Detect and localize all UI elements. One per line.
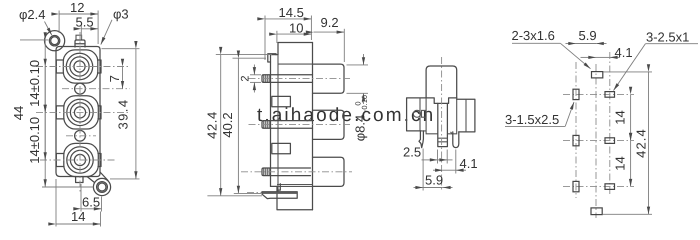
dim 4.1 line right	[456, 169, 466, 171]
grid row1	[563, 93, 634, 95]
centerline J1	[36, 66, 130, 68]
mounting ear bottom-right	[93, 178, 110, 195]
svg-text:14: 14	[613, 156, 628, 170]
top tab block	[278, 43, 313, 55]
wing hole oval	[413, 110, 420, 117]
svg-text:14.5: 14.5	[279, 5, 304, 20]
dim 5.9 ext	[422, 149, 424, 191]
svg-text:6.5: 6.5	[82, 195, 100, 210]
jack J1 right lug	[98, 60, 102, 73]
label 3-1.5x2.5 leader	[565, 102, 574, 126]
jack J2 ring2	[70, 103, 89, 122]
svg-text:2: 2	[239, 76, 251, 82]
left leg	[419, 131, 423, 148]
centerline J2	[36, 111, 130, 113]
svg-text:7: 7	[107, 75, 122, 82]
snap foot	[262, 192, 297, 199]
svg-text:φ2.4: φ2.4	[19, 7, 46, 22]
svg-text:φ3: φ3	[113, 7, 129, 22]
svg-text:2.5: 2.5	[403, 145, 421, 160]
pin P1	[262, 75, 313, 83]
jack J3 ring	[67, 147, 93, 173]
svg-text:t.aihaode.com.cn: t.aihaode.com.cn	[257, 105, 435, 126]
left wing	[407, 98, 427, 131]
svg-text:39.4: 39.4	[116, 99, 131, 130]
centerline A	[62, 88, 130, 90]
dim 5.9 line left	[414, 187, 424, 189]
svg-text:3-2.5x1: 3-2.5x1	[646, 30, 689, 45]
dim 39.4 ext top	[102, 48, 140, 50]
foot centerline	[247, 191, 264, 193]
pad R1	[605, 92, 615, 98]
dim 5.5 line	[81, 28, 98, 30]
wing hole rect	[422, 110, 427, 117]
svg-text:-0.10: -0.10	[360, 95, 369, 112]
dim 44 line	[44, 40, 46, 187]
dim 10 ext left	[276, 31, 278, 43]
pin P1 ribs	[264, 75, 270, 83]
svg-text:44: 44	[11, 106, 26, 120]
body front face	[312, 43, 314, 210]
jack J3 octagon	[64, 143, 99, 176]
svg-text:42.4: 42.4	[634, 128, 649, 158]
left wing inner line	[419, 98, 421, 131]
dim 14.5 ext left	[264, 16, 266, 61]
svg-text:14: 14	[71, 209, 85, 224]
dim 2 ext top	[250, 74, 261, 76]
dim 4.1 line	[581, 56, 597, 58]
dim 39.4 line	[135, 49, 137, 179]
dim 6.5 line	[81, 208, 102, 210]
dim 9.2 line	[314, 31, 345, 33]
jack J2 hole	[74, 107, 85, 118]
pin P3	[262, 168, 311, 176]
bottom block	[271, 186, 313, 209]
barrel bore line row3	[277, 185, 313, 187]
pad L3	[573, 181, 579, 191]
svg-text:φ8.4: φ8.4	[353, 115, 368, 142]
dim 5.9 line	[566, 43, 577, 45]
dim 40.2 line	[237, 58, 239, 193]
right wing inner line	[465, 99, 467, 132]
dim 42.4 ext top	[603, 71, 652, 73]
svg-text:4.1: 4.1	[615, 45, 633, 60]
dim dia8.4 ext bottom	[347, 92, 369, 94]
dim 14.5 line	[265, 18, 311, 20]
dim 12 line	[59, 13, 98, 15]
dim 40.2 ext top	[233, 57, 267, 59]
dim 2 arrow top	[253, 65, 255, 75]
dim 42.4 ext bottom	[207, 195, 262, 197]
pad bottom 3x1.6	[591, 208, 602, 215]
jack J1 octagon	[63, 50, 98, 83]
centerline vertical	[441, 57, 443, 192]
svg-text:3-1.5x2.5: 3-1.5x2.5	[505, 112, 559, 127]
jack J1 hole	[74, 61, 85, 72]
svg-text:40.2: 40.2	[220, 112, 235, 137]
dim 5.9 mid	[576, 43, 596, 45]
ear top-left hole ring	[49, 36, 59, 46]
small circle B	[75, 130, 86, 141]
top tab	[75, 40, 85, 47]
dim dia8.4 arrow top	[363, 54, 365, 65]
dim 5.9 line mid	[423, 187, 443, 189]
jack J3 right lug	[98, 154, 101, 167]
jack J1 ring2	[70, 57, 89, 76]
pin P3 ribs	[264, 168, 270, 176]
dim 14 bottom line	[56, 223, 101, 225]
mounting ear top-left	[45, 31, 65, 51]
dim 42.4 ext bottom	[603, 213, 652, 215]
bottom tab	[76, 177, 83, 183]
ear top-left hole	[51, 37, 59, 45]
pad L2	[573, 135, 579, 145]
center post lines	[438, 138, 448, 142]
dim 12 ext right	[97, 11, 99, 45]
dim 12 ext left	[58, 11, 60, 34]
centerline row1	[249, 78, 353, 80]
side boss 1	[272, 96, 291, 106]
jack J1 ring	[66, 53, 92, 79]
grid row3	[563, 186, 634, 188]
top tab	[426, 66, 457, 98]
ear bottom-right neck	[87, 172, 108, 183]
pad L1	[573, 89, 579, 99]
svg-text:9.2: 9.2	[321, 15, 339, 30]
svg-text:5.9: 5.9	[425, 173, 443, 188]
side boss 2	[272, 143, 291, 153]
right leg foot	[451, 132, 453, 135]
label 3-2.5x1 leader	[614, 44, 646, 91]
svg-text:12: 12	[70, 0, 84, 15]
dim 44 ext top	[20, 39, 49, 41]
dim 39.4 ext bottom	[110, 178, 140, 180]
centerline row3	[241, 171, 352, 173]
label 2-3x1.6 underline	[512, 42, 560, 44]
top-left step	[268, 54, 276, 62]
dim 2.5 line right	[438, 159, 447, 161]
body outline	[56, 47, 100, 177]
jack J2 right lug	[98, 106, 101, 119]
dim 7 line	[122, 67, 124, 89]
dim 40.2 ext bottom	[234, 192, 261, 194]
dim 14b arrows	[44, 112, 46, 160]
ear bottom-right hole	[97, 182, 108, 193]
pin P2 ribs	[264, 121, 270, 129]
ear bottom-right hole inner	[98, 183, 106, 191]
svg-text:14: 14	[613, 110, 628, 124]
dim 44 ext bottom	[42, 186, 94, 188]
label 3-1.5x2.5 underline	[505, 125, 565, 127]
dim 2.5 ext a	[437, 150, 439, 164]
dim 4.1 line left	[433, 169, 443, 171]
barrel B1	[313, 64, 345, 93]
centerline B	[66, 135, 96, 137]
jack J3 ring2	[70, 150, 89, 169]
dim 14a arrows	[44, 67, 46, 113]
dim 5.5 ext	[80, 26, 82, 40]
dim 14b line	[630, 141, 632, 187]
dim 10 line	[277, 33, 312, 35]
dim dia8.4 ext top	[347, 64, 369, 66]
pad top 3x1.6	[592, 72, 603, 78]
right wing	[457, 99, 475, 132]
small circle A	[75, 83, 86, 94]
center post	[438, 103, 448, 146]
body lower edge	[277, 184, 313, 186]
jack J2 octagon	[64, 96, 99, 129]
dim 14 bottom ext right	[100, 212, 102, 227]
dim 14 bottom ext left	[55, 179, 57, 227]
svg-text:4.1: 4.1	[460, 156, 478, 171]
svg-text:14±0.10: 14±0.10	[27, 60, 42, 107]
svg-text:14±0.10: 14±0.10	[27, 117, 42, 164]
label 3-2.5x1 underline	[645, 43, 698, 45]
middle body	[426, 98, 457, 104]
centerline vertical	[79, 32, 81, 194]
centerline J3	[40, 159, 116, 161]
svg-text:10: 10	[289, 21, 303, 36]
jack J2 left lug	[56, 106, 64, 119]
barrel B2	[313, 110, 345, 139]
dim 4.1 mid	[596, 56, 610, 58]
dim 2 arrow bottom	[253, 82, 255, 92]
dim 9.2 ext right	[343, 29, 345, 62]
dim 5.9 line b	[596, 43, 606, 45]
snap foot hatch	[263, 192, 298, 194]
dim 42.4 ext top	[216, 54, 272, 56]
dim 2.5 line left	[422, 159, 438, 161]
dim dia8.4 arrow bottom	[363, 93, 365, 104]
dim 4.1 line mid	[443, 169, 456, 171]
svg-text:2-3x1.6: 2-3x1.6	[512, 28, 555, 43]
top tab line	[75, 43, 85, 45]
dim 42.4 line	[220, 55, 222, 196]
svg-text:5.5: 5.5	[76, 15, 94, 30]
centerline row2	[249, 123, 353, 125]
svg-text:5.9: 5.9	[579, 28, 597, 43]
jack J2 ring	[67, 99, 93, 125]
pad R2	[605, 138, 615, 144]
body block	[271, 55, 279, 187]
label 2-3x1.6 leader	[560, 43, 590, 68]
bottom notch	[277, 184, 280, 190]
top nub	[76, 35, 82, 40]
body internal edge	[277, 55, 279, 192]
dim 2 ext bottom	[250, 81, 261, 83]
dim 14a line	[630, 94, 632, 140]
dim 6.5 ext right	[101, 197, 103, 212]
grid col2	[595, 64, 597, 218]
svg-text:42.4: 42.4	[205, 111, 220, 139]
dim 14.5 ext right	[310, 16, 312, 41]
grid col1	[575, 62, 577, 198]
jack J1 left lug	[56, 60, 63, 73]
grid row2	[563, 140, 634, 142]
dim 42.4 line	[648, 72, 650, 214]
right leg	[453, 132, 459, 148]
jack J3 hole	[74, 154, 85, 165]
barrel bore line row1	[278, 63, 313, 65]
label dia3 leader	[101, 20, 112, 45]
dim 6.5 ext left	[80, 184, 82, 212]
jack J3 left lug	[56, 154, 64, 167]
dim 2.5 ext b	[446, 150, 448, 164]
dim 5.9 line right	[443, 187, 453, 189]
pad R3	[605, 184, 615, 190]
label dia2.4 leader	[45, 22, 52, 36]
dim 4.1 ext	[455, 150, 457, 174]
barrel B3	[313, 157, 345, 186]
pin P2	[262, 121, 313, 129]
dim 4.1 line b	[610, 56, 620, 58]
middle body sides	[421, 98, 457, 134]
grid col3	[609, 52, 611, 196]
